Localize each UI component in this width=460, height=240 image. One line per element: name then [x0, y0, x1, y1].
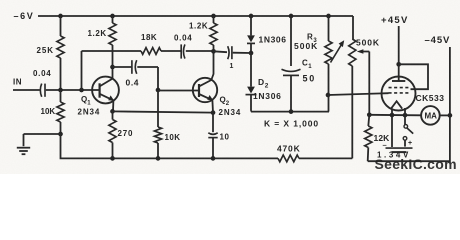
label CK533: [416, 93, 445, 103]
wire +45V lead: [398, 26, 400, 64]
wire cathode line: [369, 114, 421, 117]
label 1uf cap value: [230, 63, 235, 70]
wire Q1 collector to 0.4 cap: [113, 66, 132, 68]
resistor 1.2K collector Q2: [210, 16, 217, 80]
label Q2 designator: [220, 96, 230, 108]
capacitor 0.04 input: [40, 84, 45, 97]
capacitor 0.4: [132, 60, 137, 74]
node rail junction dots: [58, 14, 331, 19]
node C1 bottom junction: [289, 109, 294, 114]
wire Q1 emitter lead: [112, 100, 114, 111]
label battery 1.34V: [377, 151, 411, 160]
resistor 10K Q2 base: [154, 90, 161, 158]
transistor Q2: [193, 78, 217, 102]
wire 18K to 0.04 cap: [161, 50, 181, 52]
resistor 270: [109, 111, 116, 158]
wire grid line: [328, 93, 389, 95]
ground: [17, 134, 30, 154]
watermark SeekIC.com: [375, 156, 457, 172]
label R3 designator: [307, 33, 318, 45]
label Q2 part 2N34: [219, 108, 242, 117]
meter MA: [421, 106, 440, 125]
battery 1.34V: [386, 148, 413, 152]
node plate supply junction: [396, 62, 401, 67]
label switch plus: [408, 140, 413, 147]
wire 0.04 cap to Q2 collector node: [186, 50, 214, 52]
label 10K value input: [41, 107, 56, 116]
wire emitter bus: [113, 111, 214, 112]
label 12K value: [374, 133, 391, 143]
wire Q1 base feedback riser: [81, 51, 83, 90]
node Q1 collector tap: [110, 65, 115, 70]
wire ground tap: [24, 133, 61, 135]
wire -45V riser and bottom return: [368, 47, 450, 161]
label 25K value: [37, 46, 54, 55]
transistor Q1: [92, 77, 119, 104]
capacitor 1uf coupling: [228, 46, 232, 59]
label 0.04 coupling cap value: [174, 34, 192, 43]
label 10 cap value: [220, 133, 230, 142]
label Q1 designator: [81, 95, 91, 107]
label +45V supply: [381, 15, 409, 26]
resistor 18K: [141, 48, 161, 55]
wire feedback horizontal: [82, 50, 142, 52]
wire Q2 base lead: [158, 90, 199, 92]
switch S1: [403, 125, 413, 147]
label D2 designator: [258, 77, 269, 89]
label D2 1N306: [253, 91, 282, 101]
node IN bias junction: [58, 88, 63, 93]
potentiometer 500K: [349, 16, 370, 158]
node Q2 emitter junction: [211, 110, 216, 115]
label 270 value: [118, 129, 134, 138]
label C1 value 50: [303, 74, 317, 84]
wire IN lead: [13, 89, 40, 91]
diode D2 1N306: [246, 53, 257, 111]
label R3 value 500K: [294, 41, 318, 51]
diode D1 1N306: [247, 16, 255, 53]
label D1 1N306: [259, 35, 287, 45]
resistor 10K input: [57, 90, 64, 134]
wire detector bottom line: [251, 110, 329, 113]
wire bottom rail: [61, 134, 353, 158]
resistor R3 500K adjustable: [325, 16, 344, 112]
wire Q2 collector to 1uf cap: [214, 50, 228, 53]
node Q2 base junction: [156, 88, 161, 93]
label K multiplier note: [264, 119, 319, 129]
wire 1uf cap to detector node: [233, 52, 251, 54]
node wiper cathode junction: [367, 112, 372, 117]
wire screen grid loop: [399, 64, 428, 89]
wire meter to -45V: [440, 114, 450, 116]
node -45V meter junction: [448, 113, 453, 118]
label 0.4 cap value: [126, 78, 140, 88]
vacuum tube V1 CK533: [382, 77, 416, 111]
wire filament left leg: [391, 108, 393, 147]
capacitor 0.04 coupling: [181, 44, 185, 58]
resistor 25K: [57, 16, 64, 90]
resistor 470K: [278, 155, 299, 162]
label battery minus: [383, 140, 388, 149]
node tube filament dots: [390, 113, 408, 118]
wire Q2 emitter lead: [211, 100, 214, 112]
capacitor 10 emitter bypass: [208, 113, 217, 159]
wire top -6V rail: [38, 15, 353, 17]
capacitor C1 50: [282, 16, 301, 112]
node grid line junction: [326, 93, 331, 98]
label -6V supply: [14, 11, 35, 21]
label 470K value: [277, 144, 301, 154]
node detector junction: [249, 51, 254, 56]
node bottom rail dots: [110, 156, 215, 161]
label IN: [13, 78, 22, 87]
label 10K value Q2 base: [165, 133, 181, 142]
label 1.2K value Q2: [189, 22, 208, 31]
wire plate lead: [398, 64, 400, 81]
node Q1 emitter junction: [110, 109, 115, 114]
label 18K value: [141, 33, 157, 42]
wire filament right leg: [404, 108, 406, 125]
node Q2 collector junction: [211, 49, 216, 54]
label -45V supply: [425, 35, 451, 46]
node ground tap junction: [58, 132, 63, 137]
wire 0.4 cap to Q2 base corner: [137, 67, 158, 90]
label 1.2K value Q1: [88, 29, 107, 38]
resistor 1.2K collector Q1: [109, 16, 116, 79]
label C1 designator: [302, 59, 312, 71]
node Q1 base junction: [79, 88, 84, 93]
resistor 12K: [365, 115, 372, 161]
wire IN cap to Q1 base: [46, 89, 100, 91]
label 500K pot value: [356, 38, 380, 48]
label Q1 part 2N34: [78, 108, 101, 117]
label 0.04 input cap value: [33, 69, 51, 78]
